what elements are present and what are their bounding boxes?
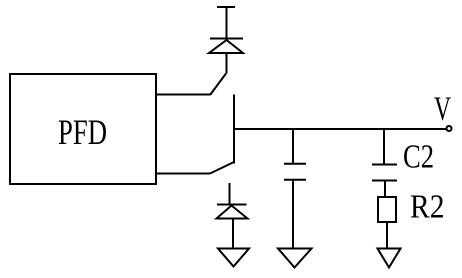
wire UP output stub: [156, 94, 210, 96]
wire C2 upper stem: [383, 129, 385, 164]
wire R2 lower stem: [386, 222, 388, 248]
ground (under C1): [278, 249, 312, 268]
capacitor C2 top plate: [372, 164, 397, 166]
svg-text:C2: C2: [403, 139, 434, 176]
wire DOWN output stub: [156, 173, 210, 175]
wire upper diode lower stem: [226, 53, 228, 74]
wire upper diode upper stem: [226, 7, 228, 39]
power supply terminal T-bar: [217, 6, 235, 8]
terminal V (open circle): [447, 126, 452, 131]
capacitor C2 bottom plate: [372, 180, 397, 182]
node pole bar (switch common): [233, 95, 235, 164]
wire lower diode lower stem: [232, 219, 234, 248]
wire lower diode upper stem: [229, 183, 231, 205]
svg-text:R2: R2: [410, 189, 445, 226]
capacitor C1 bottom plate: [284, 179, 306, 181]
diode D1 (triangle): [209, 40, 243, 53]
resistor R2 (rectangle): [378, 197, 396, 222]
svg-text:PFD: PFD: [58, 112, 107, 152]
wire C1 lower stem: [292, 181, 294, 248]
switch S1 (upper contact arm): [210, 74, 226, 96]
wire C1 upper stem: [292, 129, 294, 163]
diode D1 cathode bar: [210, 38, 243, 40]
svg-text:V: V: [434, 91, 451, 128]
ground (under diode D2): [218, 249, 249, 267]
ground (under R2): [378, 249, 401, 268]
diode D2 (triangle): [217, 206, 248, 219]
switch S2 (lower contact arm): [210, 162, 234, 174]
PFD block U1: [10, 74, 156, 184]
diode D2 cathode bar: [217, 204, 247, 206]
wire C2-R2 stem: [384, 181, 386, 196]
capacitor C1 top plate: [284, 163, 306, 165]
wire output line: [234, 128, 447, 130]
